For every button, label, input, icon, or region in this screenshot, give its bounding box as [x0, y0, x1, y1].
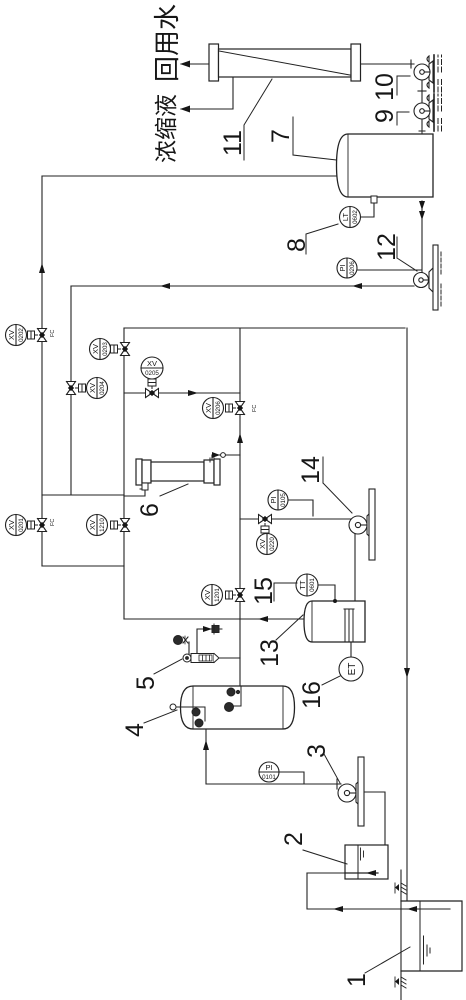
svg-text:ET: ET	[347, 663, 358, 676]
valve XV-0203	[111, 343, 130, 356]
instrument PI-0101 (text rotated)	[259, 762, 279, 782]
wire pump10 discharge to module11	[360, 63, 414, 65]
wire ET connection	[350, 642, 352, 657]
wire LT-0602 connection	[361, 203, 374, 217]
svg-text:0105: 0105	[280, 493, 287, 507]
svg-text:1210: 1210	[99, 518, 106, 532]
arrow right on pipe-A	[39, 263, 45, 273]
label 10	[371, 73, 410, 101]
svg-text:XV: XV	[7, 330, 16, 340]
label 1	[343, 947, 410, 987]
svg-text:TT: TT	[298, 580, 307, 590]
svg-text:0101: 0101	[262, 774, 276, 781]
arrow up on drop x=381	[258, 616, 268, 622]
arrow left pump12 suction (outer)	[419, 211, 425, 220]
svg-text:0206: 0206	[215, 401, 222, 415]
arrow right into tank4 bottom	[203, 740, 209, 750]
valve XV-0220 (on vertical pipe, bubble left)	[259, 515, 272, 534]
module 6 (membrane module, vertical)	[136, 459, 220, 485]
svg-text:XV: XV	[88, 383, 97, 393]
svg-text:XV: XV	[91, 344, 100, 354]
instrument XV-0205 (text rotated)	[141, 357, 163, 379]
svg-text:8: 8	[283, 238, 311, 252]
label 3	[303, 744, 340, 783]
valve XV-0202	[28, 329, 57, 342]
svg-text:1: 1	[343, 973, 371, 987]
arrow up dip pipe in tank1	[407, 906, 417, 912]
tank 7 (product water tank)	[337, 134, 434, 197]
wire PI-0206 tap	[357, 269, 421, 271]
svg-text:4: 4	[121, 723, 149, 737]
wire pump3 discharge riser	[206, 729, 341, 784]
svg-text:XV: XV	[203, 590, 212, 600]
svg-text:6: 6	[136, 503, 164, 517]
valve XV-1210	[111, 519, 130, 532]
arrow up module11 permeate	[180, 61, 190, 68]
label 11	[219, 79, 272, 160]
junction dot TT nozzle	[333, 599, 337, 603]
wire pump9-pump10 interconnect	[421, 80, 423, 103]
svg-text:FC: FC	[252, 405, 258, 412]
svg-text:3: 3	[303, 744, 331, 758]
label 6	[136, 484, 188, 517]
wire module6 outlet to pipe-C	[212, 455, 240, 459]
svg-text:LT: LT	[341, 212, 350, 221]
module6 outlet nozzle	[210, 453, 225, 462]
arrow down module6 outlet branch	[212, 452, 220, 458]
svg-text:0203: 0203	[102, 342, 109, 356]
filter 5 (cartridge filter)	[183, 654, 219, 663]
wire pump9 suction stub	[421, 119, 423, 129]
wire module11 concentrate outlet	[181, 77, 233, 109]
wire PI-0105 tap	[288, 500, 313, 516]
instrument LT-0602	[340, 207, 361, 228]
wire rung x=434	[42, 565, 124, 567]
svg-text:FC: FC	[50, 330, 56, 337]
arrow right on pipe-C	[237, 433, 243, 443]
label 7	[267, 117, 336, 160]
instrument XV-0201	[6, 515, 27, 536]
wire riser to tank7 x=824	[42, 175, 338, 177]
valve XV-0206	[226, 402, 259, 415]
wire box2 inlet drop	[307, 872, 345, 874]
tank13 heater rods	[344, 609, 354, 642]
tank 4 (conditioning tank, vertical capsule)	[181, 686, 295, 729]
label 16	[298, 676, 340, 709]
pump 10	[411, 55, 442, 92]
instrument XV-0206	[203, 398, 224, 419]
instrument PI-0206	[337, 258, 357, 278]
tank 1 (raw water pit)	[401, 901, 462, 971]
svg-text:5: 5	[132, 676, 160, 690]
arrow left on drain y=407	[404, 668, 410, 678]
wire pump3 suction from box2	[364, 792, 385, 845]
svg-text:XV: XV	[258, 539, 267, 549]
wire filter5 outlet drop	[219, 657, 240, 659]
tank7 pump nozzle	[419, 129, 425, 134]
wire tank1 dip pipe	[307, 873, 450, 909]
svg-text:1201: 1201	[214, 588, 221, 602]
wire TT-0601 connection	[318, 585, 335, 601]
svg-text:0206: 0206	[349, 261, 356, 275]
svg-text:XV: XV	[147, 359, 157, 368]
label 2	[280, 832, 347, 864]
wire pipe-A header y=42	[41, 176, 43, 566]
arrow up module11 concentrate	[180, 106, 190, 113]
svg-text:PI: PI	[338, 264, 347, 271]
instrument XV-0220	[257, 534, 278, 555]
arrow left pump12 suction (inner)	[419, 201, 425, 210]
svg-text:0204: 0204	[99, 381, 106, 395]
svg-text:0602: 0602	[352, 210, 359, 224]
wire filter5 vent line	[197, 629, 212, 654]
svg-text:PI: PI	[269, 496, 278, 503]
instrument XV-0202	[6, 325, 27, 346]
wire filter5 ball branch	[188, 642, 190, 654]
svg-text:11: 11	[219, 130, 247, 156]
instrument XV-0204	[87, 378, 108, 399]
wire module11 permeate outlet	[181, 63, 209, 65]
instrument TT-0601	[296, 574, 318, 596]
arrow up riser x=714 (upper)	[160, 283, 170, 289]
pump 14	[349, 489, 375, 560]
instrument XV-1201	[202, 585, 223, 606]
svg-text:XV: XV	[204, 403, 213, 413]
wire drop x=381 to tank13	[124, 618, 306, 620]
instrument XV-0203	[90, 339, 111, 360]
wire branch x=607 (XV-0205)	[124, 392, 240, 394]
svg-text:FC: FC	[50, 519, 56, 526]
module 11 (RO membrane, vertical)	[209, 44, 361, 81]
label 12	[373, 233, 417, 271]
wire PI-0101 tap	[279, 772, 304, 784]
svg-text:浓缩液: 浓缩液	[153, 94, 179, 163]
filter5 vent cap fitting	[212, 624, 222, 634]
wire pump14 suction	[354, 533, 356, 600]
valve XV-0201	[28, 519, 57, 532]
wire rung x=505	[42, 494, 124, 496]
wire pipe-B header y=124	[123, 328, 125, 619]
tank7 LT nozzle	[371, 196, 377, 203]
svg-text:0601: 0601	[309, 578, 316, 592]
arrow down filter5 vent	[203, 626, 212, 632]
svg-text:9: 9	[371, 109, 399, 123]
filter5 ball fitting	[174, 636, 189, 645]
svg-text:0220: 0220	[269, 537, 276, 551]
pump 3	[337, 757, 364, 826]
wire drop x=672 to drain	[124, 327, 405, 329]
label 13	[256, 615, 303, 667]
svg-text:0202: 0202	[18, 328, 25, 342]
svg-text:XV: XV	[7, 520, 16, 530]
ground hatch right of pit	[395, 883, 406, 894]
svg-text:0205: 0205	[145, 370, 159, 377]
valve XV-0204 (bubble below)	[67, 382, 86, 395]
label 14	[297, 456, 352, 513]
svg-text:PI: PI	[265, 763, 272, 772]
arrow up riser x=714 (lower)	[352, 283, 362, 289]
ground hatch left of pit	[395, 977, 406, 988]
ET heater circle 16	[339, 657, 363, 681]
label 8	[283, 224, 338, 254]
wire pump14 discharge x=481	[240, 518, 352, 520]
wire module6 inlet	[124, 490, 145, 496]
svg-text:回用水: 回用水	[152, 4, 182, 82]
box 2 (collection box)	[345, 845, 388, 879]
pump 12	[414, 245, 442, 310]
svg-text:2: 2	[280, 832, 308, 846]
tank 13 (CIP tank)	[304, 601, 365, 642]
label 4	[121, 710, 177, 737]
svg-text:0201: 0201	[18, 518, 25, 532]
wire pump12 discharge riser x=714	[71, 285, 414, 287]
label 15	[250, 577, 297, 605]
svg-text:14: 14	[297, 456, 325, 484]
pump 9	[414, 91, 442, 131]
wire pipe y=71	[70, 286, 72, 495]
instrument PI-0105	[268, 490, 288, 510]
wire pipe-C header y=240	[239, 328, 241, 689]
label 5	[132, 659, 182, 690]
svg-text:XV: XV	[88, 520, 97, 530]
label 9	[371, 109, 409, 125]
instrument XV-1210	[87, 515, 108, 536]
valve XV-0205 (on vertical branch, bubble right)	[146, 379, 159, 398]
svg-text:7: 7	[267, 129, 295, 143]
wire ground line at pit	[400, 870, 402, 1000]
tank 4 internals	[170, 686, 241, 727]
arrow down on branch x=607	[188, 390, 198, 396]
wire drain line y=407	[406, 328, 408, 901]
module6 inlet nozzle	[140, 483, 148, 490]
svg-text:13: 13	[256, 639, 284, 667]
valve XV-1201	[226, 589, 245, 602]
wire pump12 suction	[421, 201, 423, 272]
arrow up dip pipe at grade	[333, 906, 343, 912]
svg-text:10: 10	[371, 73, 399, 101]
